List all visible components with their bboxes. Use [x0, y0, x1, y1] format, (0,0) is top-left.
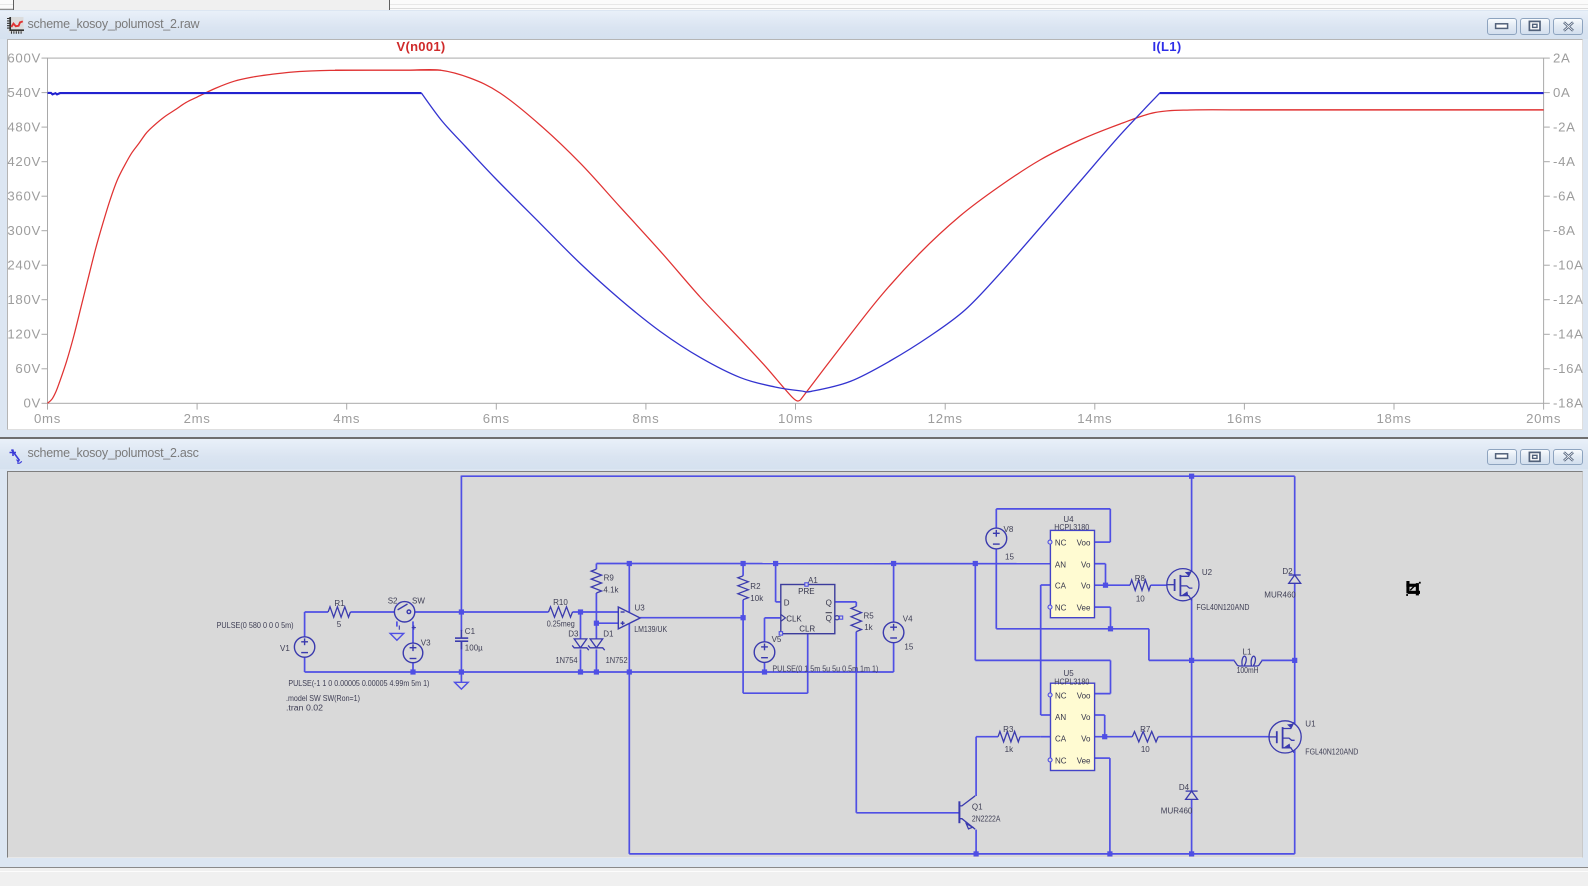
svg-text:-8A: -8A: [1553, 223, 1576, 238]
wire V1 top riser: [304, 612, 306, 637]
left axis tick 180V: [42, 299, 48, 301]
svg-text:6ms: 6ms: [483, 411, 510, 426]
wire U4 CA stub: [1041, 584, 1051, 586]
wire V3 bottom lead: [412, 662, 414, 671]
wire R7 to U1 gate: [1158, 735, 1269, 737]
wire U3 V+ lead: [628, 563, 630, 612]
wire U5 AN stub: [1041, 714, 1051, 716]
svg-text:AN: AN: [1055, 560, 1066, 569]
resistor R5: [851, 606, 861, 631]
x axis tick 4ms: [346, 403, 348, 409]
left axis tick 600V: [42, 57, 48, 59]
resistor R3: [998, 731, 1020, 741]
svg-text:2A: 2A: [1553, 51, 1571, 66]
wire output to CLR run: [743, 692, 808, 694]
plot window icon: [6, 17, 24, 39]
x axis tick 18ms: [1393, 403, 1395, 409]
wire D1 anode lead: [595, 623, 597, 639]
wire opto supply drop: [974, 563, 976, 660]
capacitor C1: [455, 629, 468, 648]
x axis tick 2ms: [196, 403, 198, 409]
voltage source V5: [754, 641, 775, 662]
svg-text:14ms: 14ms: [1077, 411, 1112, 426]
IGBT U1: [1269, 720, 1301, 752]
restore button: [1520, 449, 1550, 466]
x axis tick 6ms: [495, 403, 497, 409]
wire C1 branch top: [460, 475, 462, 612]
svg-text:12ms: 12ms: [928, 411, 963, 426]
node U5 Vee node: [1107, 851, 1112, 856]
svg-text:V3: V3: [421, 638, 431, 647]
svg-text:-10A: -10A: [1553, 258, 1584, 273]
wire U3 V- lead: [628, 623, 630, 672]
svg-text:V8: V8: [1004, 524, 1014, 533]
svg-text:1k: 1k: [864, 622, 873, 631]
wire U4 Vo tie: [1105, 563, 1107, 585]
svg-text:0A: 0A: [1553, 85, 1571, 100]
wire V8 bottom drop: [995, 548, 997, 628]
node opto supply tap: [973, 560, 978, 565]
x axis tick 10ms: [795, 403, 797, 409]
wire D3 anode lead: [580, 612, 582, 639]
wire V4 bottom lead: [893, 642, 895, 671]
right axis tick -16A: [1544, 368, 1550, 370]
left axis tick 360V: [42, 195, 48, 197]
x axis tick 12ms: [944, 403, 946, 409]
wire CLR riser: [807, 633, 809, 692]
wire U5 Vee stub: [1094, 757, 1110, 759]
svg-text:FGL40N120AND: FGL40N120AND: [1305, 747, 1358, 756]
wire C1 top lead: [460, 612, 462, 631]
wire R8 to U2 gate: [1151, 584, 1168, 586]
svg-text:10ms: 10ms: [778, 411, 813, 426]
node U3 Vplus net: [627, 560, 632, 565]
svg-text:120V: 120V: [7, 327, 41, 342]
svg-text:420V: 420V: [7, 154, 41, 169]
wire U4 Vo2 to R8: [1095, 584, 1130, 586]
svg-text:R5: R5: [864, 611, 875, 620]
node C1 bottom: [459, 669, 464, 674]
svg-text:SW: SW: [412, 596, 425, 605]
svg-text:Vo: Vo: [1081, 581, 1091, 590]
schematic pane: [7, 471, 1583, 859]
svg-text:CLK: CLK: [786, 614, 802, 623]
close button: [1553, 18, 1583, 35]
left axis tick 60V: [42, 368, 48, 370]
trace I(L1): [48, 93, 422, 95]
node V4 top net: [891, 560, 896, 565]
svg-text:Vo: Vo: [1081, 560, 1091, 569]
wire V1 bottom lead: [304, 657, 306, 672]
left axis tick 300V: [42, 230, 48, 232]
node U5 Vo tie: [1102, 734, 1107, 739]
svg-text:-6A: -6A: [1553, 189, 1576, 204]
wire U3 output: [640, 616, 743, 618]
wire D4 anode lead: [1191, 799, 1193, 853]
svg-text:NC: NC: [1055, 691, 1067, 700]
x axis tick 0ms: [47, 403, 49, 409]
svg-text:Q: Q: [826, 613, 832, 622]
right axis tick 2A: [1544, 57, 1550, 59]
svg-text:FGL40N120AND: FGL40N120AND: [1196, 603, 1249, 612]
svg-text:D2: D2: [1282, 567, 1293, 576]
svg-text:240V: 240V: [7, 258, 41, 273]
wire V3 control stub: [412, 621, 414, 643]
node Q1 emitter node: [974, 851, 979, 856]
svg-text:Vee: Vee: [1077, 603, 1091, 612]
svg-text:.tran 0.02: .tran 0.02: [286, 703, 324, 712]
svg-text:PULSE(-1 1 0 0.00005 0.00005 4: PULSE(-1 1 0 0.00005 0.00005 4.99m 5m 1): [288, 678, 429, 687]
voltage source V1: [294, 636, 314, 656]
plot pane: [7, 39, 1583, 430]
right axis tick -12A: [1544, 299, 1550, 301]
left axis tick 480V: [42, 126, 48, 128]
wire C1 ground stub: [460, 672, 462, 682]
svg-text:600V: 600V: [7, 51, 41, 66]
wire L1 right lead: [1262, 659, 1295, 661]
node U2 collector top: [1189, 473, 1194, 478]
right axis tick 0A: [1544, 92, 1550, 94]
wire U4 CA to U5 AN drop: [1040, 585, 1042, 715]
wire D pin drop: [775, 563, 777, 601]
wire D2 cathode lead: [1294, 476, 1296, 575]
svg-text:LM139/UK: LM139/UK: [634, 624, 668, 633]
svg-text:U3: U3: [635, 603, 646, 612]
node U2 emitter node: [1189, 657, 1194, 662]
wire U5 Voo stub: [1094, 692, 1110, 694]
wire CLK to V5: [764, 617, 766, 641]
wire C1 bottom lead: [460, 640, 462, 671]
svg-text:10k: 10k: [750, 593, 764, 602]
svg-text:R3: R3: [1003, 725, 1014, 734]
wire R3 left lead: [976, 735, 998, 737]
svg-text:15: 15: [904, 642, 913, 651]
background app window strip top: [0, 0, 1588, 10]
svg-text:Vee: Vee: [1077, 756, 1091, 765]
right axis tick -8A: [1544, 230, 1550, 232]
wire V5 bottom lead: [764, 662, 766, 672]
svg-text:L1: L1: [1243, 647, 1252, 656]
svg-text:4ms: 4ms: [333, 411, 360, 426]
svg-text:2N2222A: 2N2222A: [972, 814, 1001, 823]
svg-text:180V: 180V: [7, 292, 41, 307]
minimize button: [1487, 18, 1517, 35]
wire CLK pin stub: [765, 616, 781, 618]
svg-text:U2: U2: [1202, 568, 1213, 577]
x axis tick 16ms: [1243, 403, 1245, 409]
svg-text:540V: 540V: [7, 85, 41, 100]
optocoupler U4 (HCPL3180): [1050, 530, 1094, 617]
plot frame: [48, 58, 1544, 403]
wire R1 to S2: [350, 611, 394, 613]
optocoupler U5 (HCPL3180): [1051, 683, 1095, 770]
svg-text:V(n001): V(n001): [396, 39, 445, 54]
left axis tick 0V: [42, 402, 48, 404]
svg-text:V4: V4: [903, 614, 913, 623]
pin CLK: [781, 614, 786, 621]
wire R3 right lead: [1020, 735, 1041, 737]
svg-text:MUR460: MUR460: [1161, 806, 1193, 815]
node D3 bottom: [578, 669, 583, 674]
svg-text:V1: V1: [280, 644, 290, 653]
wire D4 cathode riser: [1191, 660, 1193, 791]
svg-text:R9: R9: [604, 573, 615, 582]
left axis tick 240V: [42, 264, 48, 266]
x axis tick 8ms: [645, 403, 647, 409]
wire L1 left lead: [1192, 659, 1235, 661]
svg-text:I(L1): I(L1): [1153, 39, 1182, 54]
svg-text:0ms: 0ms: [34, 411, 61, 426]
svg-text:15: 15: [1005, 552, 1014, 561]
svg-text:-12A: -12A: [1553, 292, 1584, 307]
wire noninverting input stub: [596, 622, 618, 624]
wire U2 collector riser: [1191, 476, 1193, 571]
svg-text:R7: R7: [1140, 725, 1151, 734]
wire U5 CA stub: [1041, 735, 1051, 737]
svg-text:S2: S2: [388, 596, 398, 605]
wire opto supply run: [975, 659, 1110, 661]
diode D4: [1186, 791, 1198, 799]
svg-text:NC: NC: [1055, 756, 1067, 765]
svg-text:CA: CA: [1055, 734, 1067, 743]
wire R10 to U3 inverting input: [573, 611, 619, 613]
right axis tick -6A: [1544, 195, 1550, 197]
node R2 top: [741, 560, 746, 565]
svg-text:R1: R1: [334, 598, 345, 607]
IGBT U2: [1167, 568, 1199, 600]
wire V1 to R1: [305, 611, 329, 613]
resistor R7: [1132, 731, 1158, 741]
resistor R9: [591, 569, 601, 593]
wire V4 top riser: [893, 563, 895, 622]
wire U4 Voo stub: [1095, 541, 1111, 543]
svg-text:100µ: 100µ: [465, 643, 483, 652]
wire top rail: [461, 475, 1294, 477]
wire output drop: [742, 617, 744, 693]
wire R9 bottom to noninverting input: [595, 593, 597, 623]
wire D3 cathode lead: [580, 649, 582, 672]
status strip bottom: [0, 867, 1588, 869]
right axis tick -2A: [1544, 126, 1550, 128]
svg-text:MUR460: MUR460: [1264, 590, 1296, 599]
right axis tick -14A: [1544, 333, 1550, 335]
wire U4 Vee drop: [1110, 607, 1112, 629]
svg-text:2ms: 2ms: [184, 411, 211, 426]
svg-text:Q1: Q1: [972, 802, 983, 811]
svg-text:PULSE(0 1 5m 5u 5u 0.5m 1m 1): PULSE(0 1 5m 5u 5u 0.5m 1m 1): [772, 664, 878, 673]
svg-text:PRE: PRE: [798, 586, 814, 595]
ground C1 ground: [455, 682, 469, 689]
svg-text:R2: R2: [750, 582, 761, 591]
op-amp U3 (comparator LM139): [618, 607, 640, 629]
trace V(n001): [48, 70, 801, 404]
svg-text:360V: 360V: [7, 189, 41, 204]
svg-text:300V: 300V: [7, 223, 41, 238]
wire U5 Vo2 to R7: [1094, 735, 1132, 737]
svg-text:Voo: Voo: [1077, 691, 1091, 700]
wire U3 V- to bottom rail: [628, 672, 630, 854]
diode D2: [1289, 575, 1301, 583]
node Vee node: [1108, 626, 1113, 631]
svg-text:Voo: Voo: [1077, 538, 1091, 547]
wire U5 Vo1 stub: [1094, 714, 1104, 716]
pin PRE: [805, 582, 808, 585]
svg-text:CLR: CLR: [799, 624, 815, 633]
wire Q1 emitter drop: [975, 829, 977, 853]
svg-text:-14A: -14A: [1553, 327, 1584, 342]
node D pin net: [773, 560, 778, 565]
svg-text:1N752: 1N752: [606, 656, 629, 665]
svg-text:1N754: 1N754: [556, 656, 579, 665]
svg-text:V5: V5: [772, 635, 782, 644]
wire S2 to R10: [415, 611, 549, 613]
svg-text:.model SW SW(Ron=1): .model SW SW(Ron=1): [286, 694, 360, 703]
transistor Q1 (2N2222A): [959, 795, 975, 828]
wire bottom rail: [629, 852, 1294, 854]
zener diode D1: [588, 638, 605, 649]
schematic window icon: [9, 447, 23, 469]
wire R5 top lead: [855, 601, 857, 605]
svg-text:10: 10: [1136, 594, 1145, 603]
minimize button: [1487, 449, 1517, 466]
wire Q1 collector riser: [975, 736, 977, 795]
wire U4 Vo1 stub: [1095, 562, 1106, 564]
wire V8 top lead: [995, 508, 997, 527]
divider between windows: [0, 437, 1588, 439]
switch S2: [394, 601, 414, 621]
node L1 right node: [1292, 657, 1297, 662]
resistor R2: [738, 575, 748, 599]
svg-text:18ms: 18ms: [1376, 411, 1411, 426]
node U3 output: [741, 615, 746, 620]
wire U5 Vo tie: [1104, 715, 1106, 737]
wire R5 to Q1 base: [856, 811, 959, 813]
node U3 plus input: [594, 620, 599, 625]
voltage source V4: [883, 622, 904, 643]
wire Vee to U2 emitter node: [1149, 659, 1192, 661]
right axis tick -4A: [1544, 161, 1550, 163]
svg-text:D1: D1: [603, 629, 614, 638]
waveform viewer window scheme_kosoy_polumost_2.raw: [0, 10, 1588, 438]
resistor R10: [549, 606, 573, 616]
svg-text:60V: 60V: [15, 361, 41, 376]
inductor L1: [1234, 656, 1262, 666]
restore button: [1520, 18, 1550, 35]
wire U4 Voo drop: [1109, 508, 1111, 541]
svg-text:D3: D3: [568, 629, 579, 638]
D flip-flop A1: [781, 584, 835, 633]
node D4 bottom node: [1189, 851, 1194, 856]
left axis tick 420V: [42, 161, 48, 163]
svg-text:-16A: -16A: [1553, 361, 1584, 376]
svg-text:AN: AN: [1055, 713, 1066, 722]
zoom cursor icon: [1406, 581, 1421, 596]
svg-text:-18A: -18A: [1553, 396, 1584, 411]
svg-text:16ms: 16ms: [1227, 411, 1262, 426]
svg-text:5: 5: [337, 619, 342, 628]
svg-text:Q: Q: [826, 598, 832, 607]
left axis tick 540V: [42, 92, 48, 94]
svg-text:HCPL3180: HCPL3180: [1054, 523, 1089, 532]
wire comparator net: [596, 562, 1050, 564]
wire S2 control stub left: [396, 621, 398, 626]
svg-text:NC: NC: [1055, 603, 1067, 612]
svg-text:NC: NC: [1055, 538, 1067, 547]
ground switch control ground: [390, 633, 404, 640]
wire Vee run right: [1111, 627, 1149, 629]
svg-text:PULSE(0 580 0 0 0 5m): PULSE(0 580 0 0 0 5m): [217, 621, 294, 630]
wire R2 top lead: [742, 563, 744, 575]
svg-text:-2A: -2A: [1553, 120, 1576, 135]
wire D1 cathode lead: [595, 649, 597, 672]
wire R2 bottom lead: [742, 599, 744, 617]
wire U1 emitter to bottom rail: [1294, 749, 1296, 853]
svg-text:Vo: Vo: [1081, 713, 1091, 722]
svg-text:D: D: [784, 598, 790, 607]
schematic window scheme_kosoy_polumost_2.asc: [0, 439, 1588, 868]
voltage source V8: [986, 528, 1007, 549]
node D3 top: [578, 609, 583, 614]
svg-text:-4A: -4A: [1553, 154, 1576, 169]
svg-text:U1: U1: [1305, 719, 1316, 728]
node V3 bottom: [410, 669, 415, 674]
zener diode D3: [572, 638, 589, 649]
left axis tick 120V: [42, 333, 48, 335]
svg-text:1k: 1k: [1005, 745, 1014, 754]
x axis tick 14ms: [1094, 403, 1096, 409]
wire R9 top corner: [595, 563, 597, 569]
svg-text:HCPL3180: HCPL3180: [1054, 677, 1089, 686]
svg-text:4.1k: 4.1k: [603, 585, 619, 594]
svg-text:C1: C1: [465, 627, 476, 636]
close button: [1553, 449, 1583, 466]
wire U4 Vee stub: [1095, 606, 1111, 608]
wire U5 Vee drop: [1109, 758, 1111, 854]
svg-text:100mH: 100mH: [1237, 666, 1259, 675]
svg-text:R10: R10: [553, 598, 568, 607]
svg-text:0V: 0V: [23, 396, 41, 411]
wire D pin stub: [776, 600, 781, 602]
svg-text:Vo: Vo: [1081, 734, 1091, 743]
wire D2 anode to L1 node: [1294, 583, 1296, 724]
wire V8 top run: [996, 507, 1110, 509]
svg-text:0.25meg: 0.25meg: [547, 619, 575, 628]
node D1 bottom: [594, 669, 599, 674]
svg-text:20ms: 20ms: [1526, 411, 1561, 426]
svg-text:480V: 480V: [7, 120, 41, 135]
resistor R1: [328, 606, 350, 616]
x axis tick 20ms: [1543, 403, 1545, 409]
wire R5 bottom drop: [855, 631, 857, 812]
wire Vee drop to source node: [1148, 628, 1150, 660]
resistor R8: [1130, 580, 1151, 590]
svg-text:10: 10: [1141, 745, 1150, 754]
wire ground rail left: [305, 671, 894, 673]
svg-text:R8: R8: [1135, 573, 1146, 582]
node C1 top: [459, 609, 464, 614]
svg-text:8ms: 8ms: [632, 411, 659, 426]
svg-text:A1: A1: [808, 575, 818, 584]
voltage source V3: [403, 643, 423, 663]
node V5 bottom: [762, 669, 767, 674]
wire V8 to Vee run: [996, 627, 1110, 629]
right axis tick -10A: [1544, 264, 1550, 266]
right axis tick -18A: [1544, 402, 1550, 404]
wire U5 Voo riser: [1110, 660, 1112, 693]
svg-text:D4: D4: [1179, 782, 1190, 791]
node U3 Vminus rail: [627, 669, 632, 674]
wire Q to R5: [835, 600, 857, 602]
